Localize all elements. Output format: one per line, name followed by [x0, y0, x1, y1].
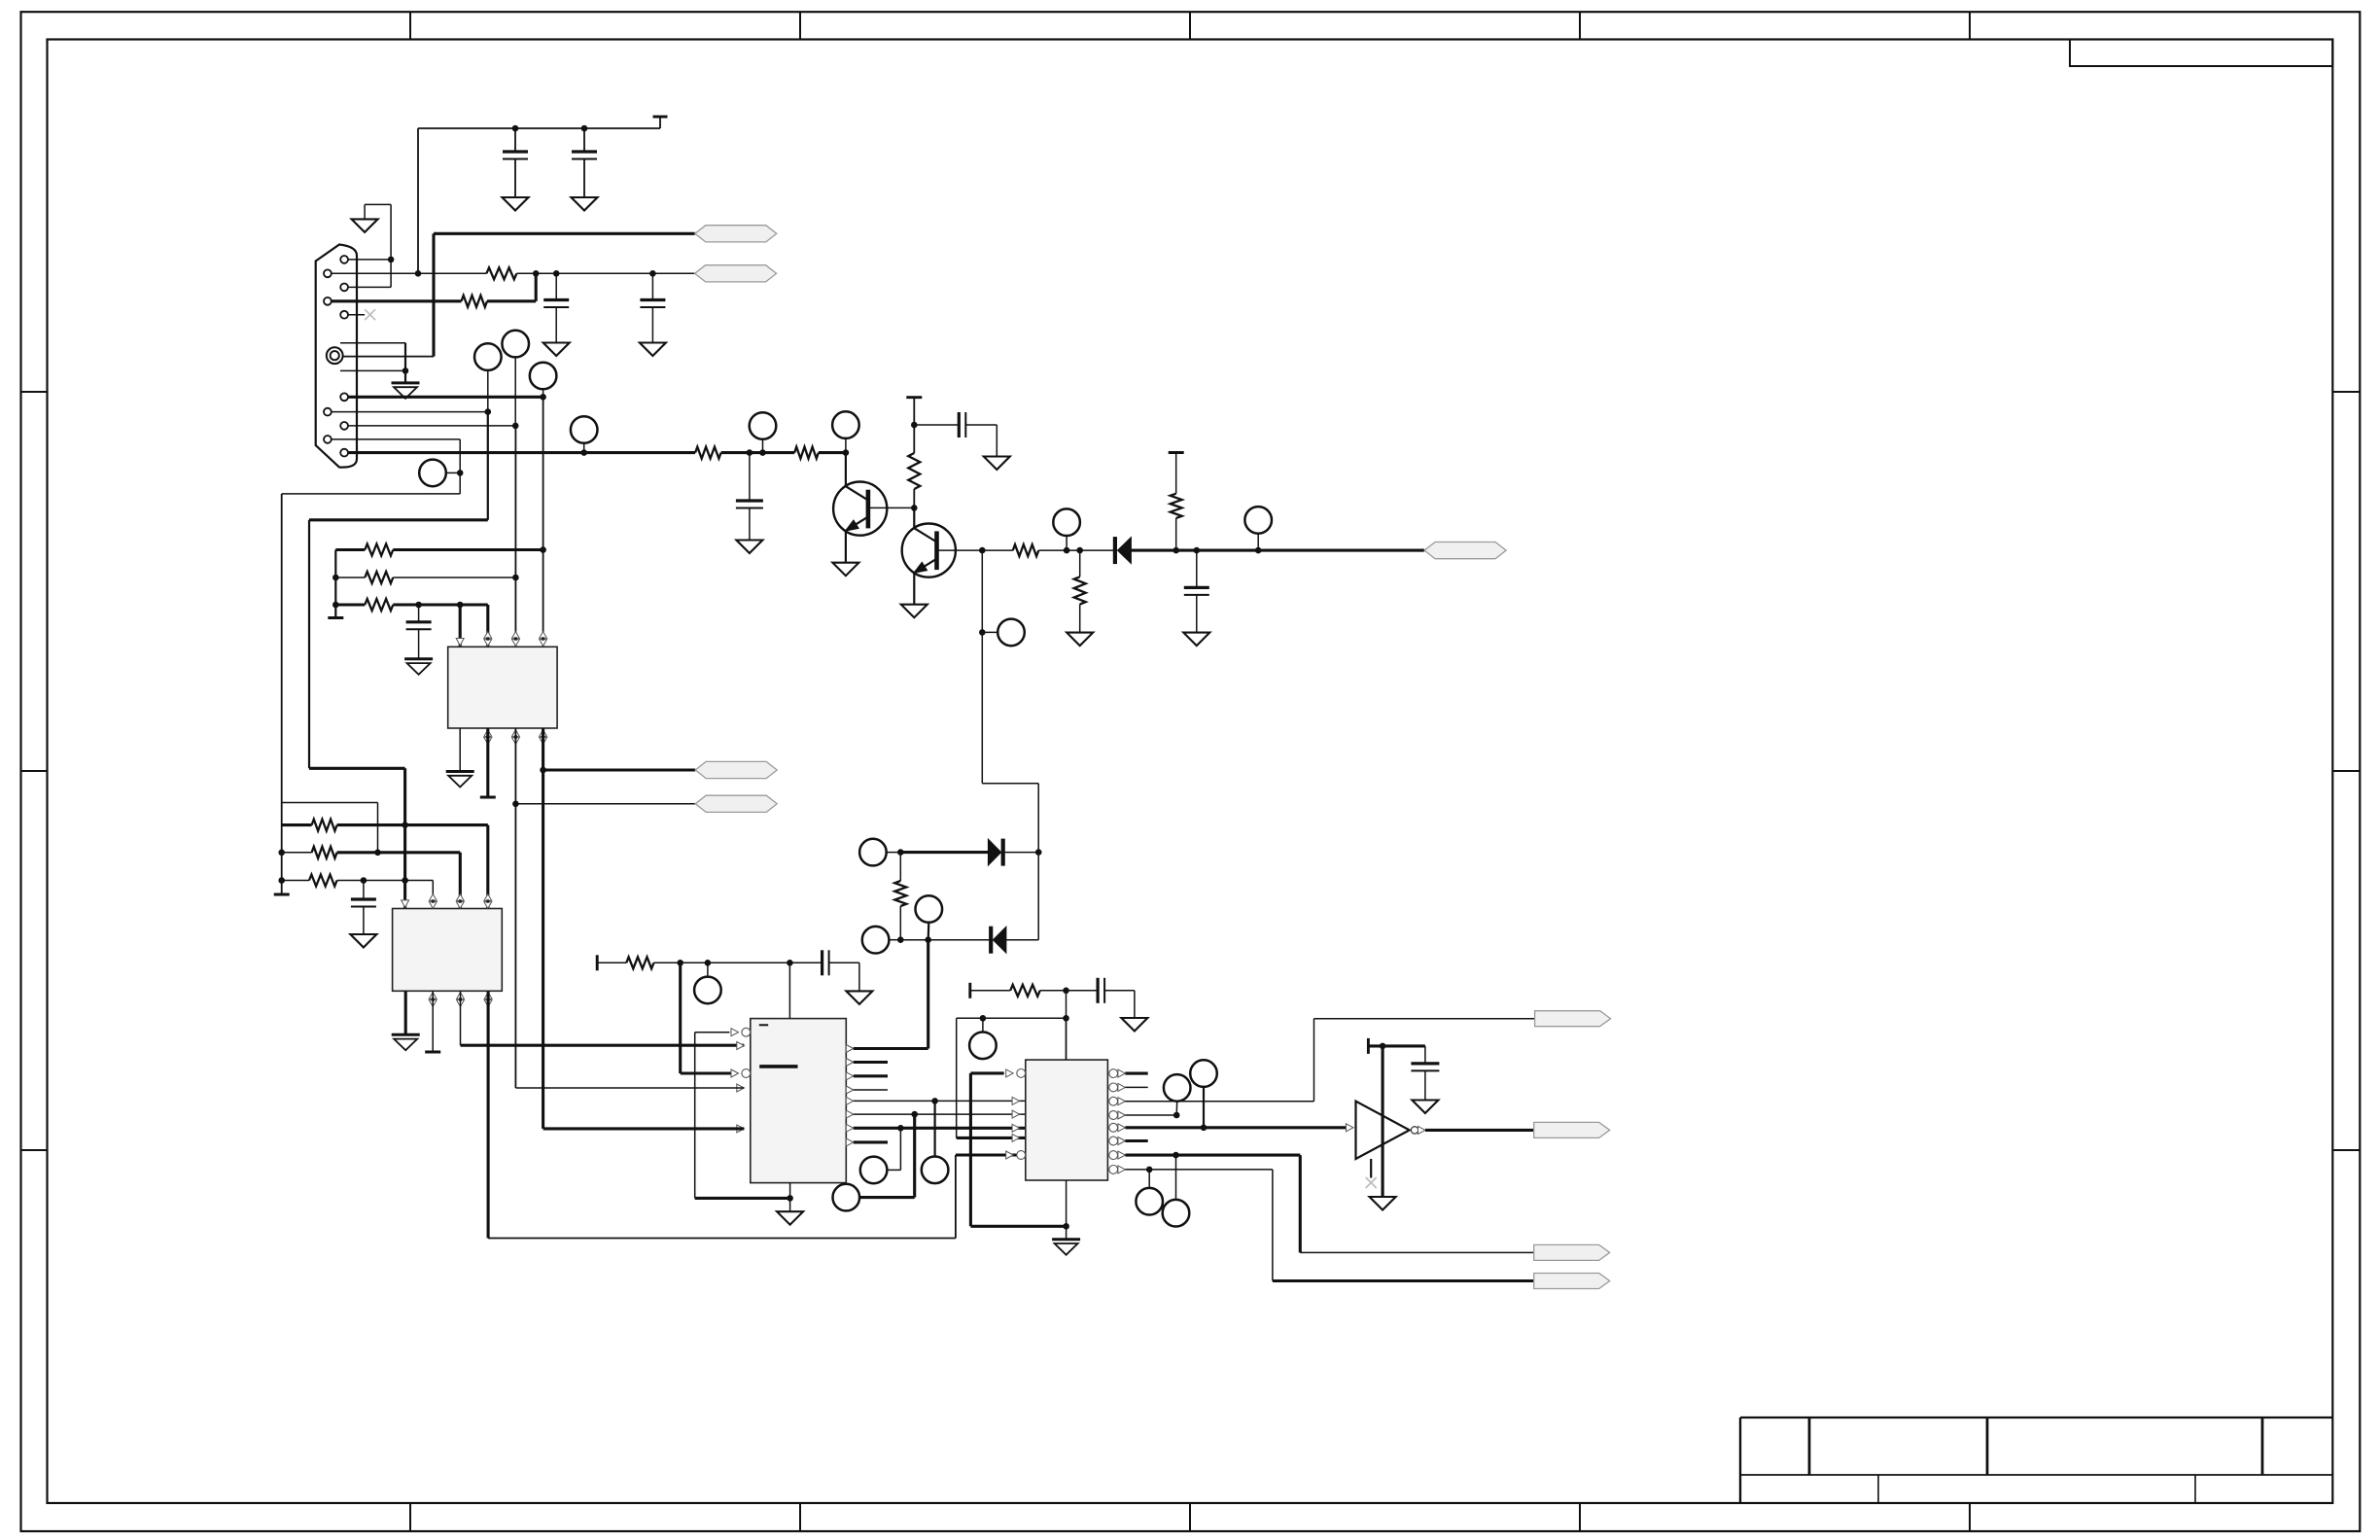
node junction rowB left: [897, 936, 904, 943]
pin arrow U3 r6: [846, 1110, 854, 1118]
pin arrow U3 r7: [846, 1124, 854, 1132]
wire R8 top: [1175, 453, 1177, 494]
diode D3 cathode bar: [1113, 537, 1117, 564]
wire to D3: [1080, 549, 1115, 551]
resistor R3: [695, 447, 721, 459]
node junction rail-C2: [581, 125, 588, 132]
wire flag6 row: [1314, 1018, 1535, 1020]
wire Q2 base: [937, 549, 983, 551]
node junction shield: [402, 367, 409, 374]
node junction V2-row3: [402, 877, 408, 884]
wire U3 r5 to U4: [854, 1100, 1026, 1102]
node junction Q1 base: [911, 505, 918, 511]
wire V558 elbow to U3 e: [543, 1127, 745, 1130]
wire U4 L1: [970, 1071, 1003, 1074]
pin bar U3 row start: [596, 955, 599, 970]
wire V530 elbow to U3 d: [515, 1087, 744, 1089]
net label flag SHIELD: [695, 226, 777, 242]
capacitor C3: [555, 273, 557, 299]
node junction flag4 tap: [512, 801, 519, 808]
node junction U4 gnd: [1063, 1223, 1069, 1230]
wire shield to ground: [404, 370, 406, 383]
pin diamond U2 top3: [456, 894, 464, 901]
wire J1.5 stub: [348, 314, 365, 316]
wire TP4 stub: [446, 472, 460, 473]
IC U1 body: [448, 647, 557, 728]
transistor Q1 emitter diag: [846, 517, 868, 531]
node junction TP13: [925, 936, 931, 943]
wire bottom row up: [955, 1155, 957, 1239]
wire U4row post: [1040, 990, 1098, 992]
ground under C12: [736, 541, 762, 554]
wire U3 r7 to U4: [854, 1127, 1026, 1130]
resistor R11: [365, 572, 393, 583]
ground under C4: [640, 343, 666, 357]
node junction V1-row3: [278, 877, 285, 884]
wire opamp pwr down: [1382, 1046, 1384, 1197]
capacitor C4: [651, 273, 653, 299]
ground under C10: [1121, 1018, 1147, 1032]
node junction TP2: [512, 423, 519, 430]
pin U4 R7: [1109, 1151, 1118, 1160]
net label flag TXOUT: [1424, 542, 1506, 559]
wire TP22 stem: [1148, 1170, 1150, 1188]
ground under C2: [572, 197, 598, 211]
wire shield loop vertical: [404, 343, 406, 371]
wire rowC post: [393, 603, 488, 606]
resistor R7: [1074, 577, 1086, 604]
title block: [1740, 1417, 2332, 1418]
net label flag CTRL2: [695, 795, 777, 812]
pin diamond U1 top4: [540, 632, 547, 639]
wire V1 jog right: [282, 802, 378, 804]
transistor Q1 bar: [866, 490, 871, 529]
ground under C9: [846, 991, 872, 1004]
wire U3 r6 to U4: [854, 1113, 1026, 1115]
wire TP16 riser: [899, 1128, 901, 1170]
wire TP16 stub: [887, 1169, 900, 1171]
wire U4 R1 stub: [1125, 1072, 1147, 1075]
wire J1.6 row: [348, 396, 543, 399]
wire C9 right: [829, 962, 859, 963]
pin arrow U2 top1: [402, 900, 409, 908]
pin arrow U4 L4: [1012, 1124, 1020, 1132]
wire TP6 stem: [762, 439, 764, 453]
wire C10 right: [1104, 990, 1135, 992]
transistor Q2 emitter diag: [914, 559, 936, 573]
wire shield top stub: [340, 342, 405, 344]
testpoint TP13: [916, 895, 943, 923]
node junction rowC-U1p1: [457, 602, 464, 609]
resistor R6: [1013, 544, 1039, 556]
power bar U2 pin6: [425, 1051, 440, 1054]
wire U3row pre: [597, 962, 626, 963]
node junction U3row-b: [705, 960, 712, 966]
wire U1 pin6 T: [486, 728, 489, 797]
power bar R5 top: [906, 396, 922, 399]
wire flagC row: [1273, 1279, 1534, 1282]
IC U4 body: [1026, 1060, 1108, 1180]
wire U4 top pin stub: [1066, 1018, 1067, 1060]
wire flagB row: [1300, 1251, 1533, 1253]
op-amp U5 body: [1356, 1102, 1410, 1159]
wire D1 to rowA right: [1005, 852, 1039, 854]
wire R8 bottom: [1175, 518, 1177, 550]
ground U1: [446, 770, 474, 773]
resistor R15: [309, 875, 337, 887]
connector J1 pin 5: [340, 311, 348, 319]
wire row2 post: [337, 851, 461, 854]
wire flagB riser: [1299, 1155, 1302, 1252]
power bar R8 top: [1169, 451, 1184, 454]
pin arrow U3 d: [737, 1084, 745, 1092]
pin arrow U3 r5: [846, 1097, 854, 1104]
IC U2 body: [393, 909, 503, 992]
net label flag RX: [695, 265, 777, 282]
node junction R7 tap: [1076, 547, 1083, 554]
wire base net jog: [982, 783, 1038, 785]
no-connect X opamp: [1366, 1177, 1377, 1188]
wire flag4 row: [515, 803, 695, 805]
wire Q1 base: [868, 507, 914, 508]
node junction TP18: [980, 1015, 987, 1022]
pin arrow opamp in: [1347, 1124, 1354, 1132]
wire TP7 stem: [845, 438, 847, 453]
wire rowB post: [393, 577, 515, 578]
wire TP17 riser: [913, 1114, 916, 1198]
node junction rowA left: [897, 849, 904, 856]
wire U4 R3: [1125, 1101, 1313, 1102]
wire U3 r2 stub: [854, 1061, 888, 1064]
pin U4 R3: [1109, 1097, 1118, 1105]
pin arrow U4 L5: [1012, 1134, 1020, 1141]
power bar V1 end: [274, 893, 290, 896]
diode D1 cathode bar: [1001, 839, 1005, 866]
wire U4 gnd stem: [1066, 1226, 1067, 1239]
wire U3 bottom pin: [789, 1183, 791, 1199]
node junction U3row-a: [677, 960, 683, 966]
testpoint TP2: [502, 331, 529, 358]
ground under R7: [1067, 633, 1093, 647]
wire U4 R5 to opamp: [1125, 1126, 1347, 1129]
resistor R17: [1010, 985, 1040, 997]
connector J1 pin 9: [324, 436, 332, 443]
pin bar opamp pwr start: [1367, 1038, 1370, 1054]
wire Q1 collector vertical: [845, 453, 847, 487]
wire U1 pin5 gnd: [459, 728, 461, 772]
pin arrow U3 r4: [846, 1086, 854, 1094]
testpoint TP16: [860, 1157, 888, 1184]
wire J1.1 stub: [348, 259, 391, 261]
node junction R8 tap: [1172, 547, 1179, 554]
power bar U1 pin6: [480, 796, 496, 799]
testpoint TP5: [571, 416, 598, 443]
ground chassis arrow: [352, 219, 378, 232]
wire J1.7 row: [332, 411, 488, 413]
wire shield vertical: [432, 233, 435, 356]
wire U2 pin7 down: [460, 991, 462, 1045]
node junction Q2 base out: [979, 547, 986, 554]
testpoint TP20: [1190, 1060, 1217, 1087]
pin bubble U3 a: [731, 1029, 739, 1036]
wire U2 pin6 T: [432, 991, 434, 1052]
pin diamond U2 top2: [429, 894, 437, 901]
node junction TPin1: [759, 449, 766, 456]
wire J1.9 row: [332, 438, 460, 440]
pin diamond U2 bot3: [457, 993, 465, 999]
capacitor C10: [1096, 978, 1099, 1003]
wire U3row post: [654, 962, 822, 963]
capacitor C1: [514, 128, 516, 152]
ground shield: [392, 381, 420, 384]
node junction rail-pin2: [415, 270, 422, 277]
wire TP9 stem: [1257, 534, 1259, 550]
node junction TP4: [457, 470, 464, 476]
node junction diode rowA right: [1035, 849, 1042, 856]
node junction rowA-B: [332, 575, 339, 581]
wire U3 r8 stub: [854, 1140, 888, 1143]
testpoint TP18: [969, 1032, 997, 1060]
wire R1 to flag: [516, 272, 694, 274]
wire V530 long: [514, 426, 516, 647]
node junction C3 tap: [553, 270, 560, 277]
connector J1 pin 6: [340, 393, 348, 401]
resistor R4: [794, 447, 819, 459]
transistor Q2 collector diag: [914, 528, 936, 542]
wire U2 pin7 row to U3: [461, 1044, 745, 1047]
wire rowA left corner: [334, 550, 336, 618]
transistor Q1 collector diag: [846, 486, 868, 500]
wire rowB: [900, 939, 991, 941]
wire U3 a loop: [695, 1032, 730, 1033]
node junction V2-row1: [402, 822, 408, 828]
resistor R13: [312, 820, 337, 831]
wire U4 R7: [1125, 1154, 1300, 1157]
wire TP1 stem: [487, 370, 489, 412]
wire rowB pre: [335, 577, 365, 578]
node junction U4 top net: [1063, 1015, 1069, 1022]
wire base net down: [981, 550, 983, 632]
wire base row to R6: [982, 549, 1013, 551]
node junction TP1: [485, 408, 492, 415]
IC U3 body: [751, 1019, 847, 1183]
wire row2 to U2 pin3: [459, 853, 462, 909]
wire flag3 row: [543, 768, 696, 771]
pin arrow U3 r1: [846, 1045, 854, 1053]
wire row1 post: [337, 823, 488, 826]
wire base net down2: [981, 632, 983, 783]
no-connect X J1.5: [365, 309, 375, 320]
ground U4: [1052, 1238, 1080, 1241]
resistor R5: [908, 453, 920, 489]
testpoint TP15: [922, 1157, 949, 1184]
wire U3 a loop bottom: [695, 1197, 790, 1200]
transistor Q2 bar: [934, 531, 939, 570]
wire TP14 stem: [707, 962, 709, 976]
node junction flag3 tap: [540, 767, 546, 774]
ground under C3: [543, 343, 570, 357]
ground under C5: [984, 457, 1010, 471]
wire row1 to U2 pin4: [486, 825, 489, 909]
capacitor C2: [583, 128, 585, 152]
pin bubble U4 L1: [1006, 1069, 1014, 1077]
wire P7 net left: [309, 518, 488, 521]
wire shield mid stub: [343, 356, 434, 358]
wire pin1-pin3 vertical: [390, 204, 392, 287]
wire V558 long: [542, 397, 544, 647]
wire rowC to U1 pin1: [459, 605, 462, 647]
testpoint TP21: [1163, 1200, 1190, 1227]
capacitor C7: [418, 605, 420, 622]
wire TP8 stem: [1066, 536, 1067, 550]
node junction rowA-C: [332, 602, 339, 609]
testpoint TP8: [1053, 508, 1080, 536]
wire U4 top net down: [956, 1018, 958, 1137]
power bar rows end: [328, 616, 343, 619]
node junction TP17: [911, 1111, 918, 1118]
wire flag6 riser: [1313, 1019, 1315, 1102]
wire long bottom row: [488, 1238, 956, 1240]
ground opamp: [1370, 1197, 1396, 1210]
wire J1.2 row: [332, 272, 487, 274]
wire R5 top: [913, 398, 915, 453]
testpoint TP12: [862, 927, 890, 954]
node junction TP8: [1064, 547, 1070, 554]
wire J1.3 stub: [348, 286, 391, 288]
node junction C4 tap: [649, 270, 656, 277]
connector J1 pin 2: [324, 269, 332, 277]
wire TP2 stem: [514, 357, 516, 426]
transistor Q2 body: [902, 524, 956, 577]
wire flagC riser: [1272, 1170, 1274, 1281]
pin U4 R4: [1109, 1111, 1118, 1120]
wire TP18 stem: [982, 1018, 984, 1032]
node junction Q1 collector: [843, 449, 850, 456]
pin diamond U1 bot4: [540, 730, 547, 737]
ground under C1: [503, 197, 529, 211]
ground U3: [777, 1211, 803, 1225]
wire U4 bottom row: [970, 1225, 1066, 1228]
wire R3-R4: [721, 451, 795, 454]
node junction TP19: [1173, 1112, 1180, 1119]
resistor R8: [1171, 494, 1182, 518]
wire U4 L1 riser: [969, 1073, 972, 1226]
wire to U4 L6: [956, 1153, 1026, 1156]
wire U4row pre: [970, 990, 1010, 992]
diode D2 cathode bar: [989, 927, 993, 954]
wire C11 bottom: [1424, 1070, 1426, 1100]
power port VCC T-bar: [659, 117, 661, 128]
wire row3 to U2 pin2: [432, 881, 434, 909]
transistor Q1 body: [833, 481, 887, 535]
net label flag AOUT: [1534, 1122, 1610, 1137]
capacitor C12: [749, 453, 751, 501]
connector J1 shield ring: [327, 347, 343, 364]
capacitor C5: [958, 412, 961, 437]
capacitor C8: [363, 881, 365, 900]
node junction rowC-C7: [415, 602, 422, 609]
sheet zone tick marks: [409, 12, 411, 39]
resistor R16: [626, 957, 653, 968]
net label flag STAT2: [1534, 1244, 1610, 1260]
node junction C8 tap: [361, 877, 367, 884]
pin arrow U3 r8: [846, 1138, 854, 1146]
wire J1.4 row: [332, 299, 462, 302]
pin diamond U1 bot3: [512, 730, 520, 737]
wire shield bottom stub: [340, 369, 405, 371]
wire U3 r4 stub: [854, 1089, 888, 1091]
wire U3row to pin c: [679, 962, 682, 1073]
node junction TP3: [540, 394, 546, 401]
wire TP3 stem: [542, 389, 544, 397]
pin arrow U4 L2: [1012, 1097, 1020, 1104]
resistor R1: [486, 267, 516, 279]
wire D2 to rowA right: [1006, 939, 1038, 941]
wire J1.10 input row: [348, 451, 695, 454]
capacitor C6: [1196, 550, 1198, 587]
wire R4 to Q1: [819, 451, 846, 454]
pin arrow U3 e: [737, 1125, 745, 1133]
wire rowB to U3 r1: [927, 940, 929, 1049]
pin arrow U1 top1: [456, 639, 464, 647]
wire R2 jog: [487, 299, 536, 302]
testpoint TP22: [1136, 1188, 1163, 1215]
node junction TP9: [1255, 547, 1262, 554]
wire U4 R4: [1125, 1114, 1176, 1116]
resistor R2: [462, 296, 488, 307]
wire J1.8 row: [348, 425, 515, 427]
pin U4 R1: [1109, 1069, 1118, 1078]
wire opamp pwr row: [1368, 1044, 1425, 1047]
testpoint TP6: [750, 412, 777, 439]
wire U3 gnd stem: [789, 1198, 791, 1211]
wire C5 right: [965, 424, 997, 426]
wire U2 pin5 gnd: [404, 991, 407, 1034]
pin arrow U4 L3: [1012, 1110, 1020, 1118]
wire TP10 stub: [982, 631, 997, 633]
IC U3 graphic dash1: [759, 1024, 768, 1026]
wire row3 post: [337, 880, 434, 882]
node junction rowA-V558: [540, 546, 546, 553]
ground U2: [392, 1033, 420, 1036]
net label flag CTRL1: [695, 761, 777, 778]
net label flag STAT3: [1534, 1274, 1610, 1289]
node junction TP15: [931, 1098, 938, 1104]
capacitor C9: [821, 950, 823, 975]
testpoint TP1: [474, 343, 502, 370]
wire TP13 stem: [927, 923, 930, 940]
wire U3 top pin: [788, 962, 790, 1018]
pin bubble U4 L6: [1006, 1151, 1014, 1159]
wire R7 top stem: [1079, 550, 1081, 577]
wire Q2 collector vertical: [913, 507, 915, 528]
node junction U3 gnd: [787, 1195, 793, 1202]
wire U3 r3 stub: [854, 1074, 888, 1077]
transistor Q1 emitter arrow: [846, 520, 859, 531]
ground under C11: [1412, 1101, 1438, 1114]
net label flag STAT1: [1535, 1011, 1611, 1027]
wire TP21 stem: [1175, 1155, 1177, 1200]
ground under C6: [1183, 633, 1209, 647]
node junction TP10: [979, 629, 986, 636]
wire pin9 loop down: [459, 439, 461, 494]
wire rail down to pin2 row: [417, 128, 419, 273]
wire U1 pin7 down: [514, 728, 516, 1088]
resistor R14: [312, 847, 337, 858]
wire V2 to IC2: [309, 767, 405, 770]
wire C11 stem: [1424, 1046, 1426, 1064]
transistor Q2 emitter arrow: [914, 562, 927, 573]
